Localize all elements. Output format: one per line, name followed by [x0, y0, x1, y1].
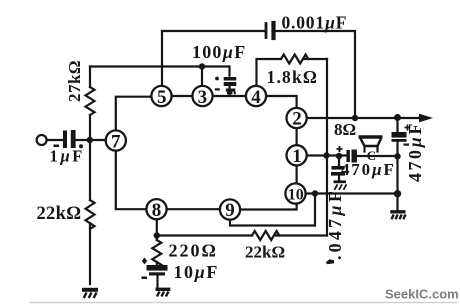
pin 3 [192, 86, 212, 106]
wire pin1 line [306, 154, 346, 156]
node pin1 line 470uF stub [336, 153, 342, 159]
node pin10 right column [394, 190, 401, 197]
wire pin2 output line [306, 117, 429, 119]
svg-text:4: 4 [251, 87, 261, 108]
stray tick mark [326, 259, 335, 264]
resistor 22k bottom line [157, 231, 327, 240]
speaker legs [365, 146, 378, 152]
pin 9 [220, 199, 240, 219]
resistor 22k left [86, 140, 95, 285]
resistor 1.8k loop [257, 55, 328, 87]
ground G1 22k [82, 290, 98, 298]
node right column top [394, 114, 401, 121]
IC loop left side [116, 97, 153, 132]
svg-text:22kΩ: 22kΩ [37, 204, 82, 224]
wire pin8-pin9 [166, 208, 221, 210]
wire pin5 to top line [161, 31, 163, 87]
svg-text:.047µF: .047µF [325, 188, 345, 260]
svg-text:1: 1 [292, 146, 302, 167]
pin 2 [287, 108, 307, 128]
wire 0.001uF top line left [162, 30, 264, 32]
ground G2 10uF [156, 289, 171, 296]
svg-text:470µF: 470µF [341, 160, 396, 179]
wire pin8 down [156, 218, 158, 240]
svg-text:8Ω: 8Ω [334, 120, 356, 139]
wire cap to pin7 [74, 139, 107, 141]
resistor 27k [86, 67, 95, 140]
wire input to cap [47, 139, 63, 141]
minus mark right cap [404, 144, 410, 146]
svg-text:1µF: 1µF [50, 147, 85, 166]
wire pin4 to pin2 [265, 96, 296, 109]
capacitor 470uF right stub [396, 142, 398, 210]
svg-text:1.8kΩ: 1.8kΩ [267, 67, 319, 87]
plus mark series cap [337, 146, 343, 152]
capacitor 10uF plates [142, 265, 168, 279]
speaker 8ohm [359, 137, 383, 146]
svg-text:22kΩ: 22kΩ [245, 243, 285, 262]
IC pin circles [106, 86, 307, 220]
pin 10 [285, 183, 305, 203]
wire 0.001uF top line right [273, 31, 356, 118]
wire pin10 line [306, 192, 398, 194]
wire pin3-pin4 [212, 95, 247, 97]
svg-text:SeekIC.com: SeekIC.com [385, 287, 459, 302]
svg-text:2: 2 [292, 109, 302, 130]
node pin10 line [312, 190, 318, 196]
wire 470uF gnd stub [338, 156, 340, 182]
svg-text:10µF: 10µF [174, 262, 219, 282]
svg-text:7: 7 [111, 131, 121, 152]
capacitor C series plates [347, 150, 357, 163]
input terminal [37, 135, 47, 145]
pin 7 [106, 130, 126, 150]
arrow supply [419, 114, 433, 123]
svg-text:3: 3 [198, 87, 208, 108]
pin 5 [151, 86, 171, 106]
wire pin9 stub loop [230, 194, 315, 226]
wire 10uF to gnd [156, 276, 158, 289]
pin 4 [246, 86, 266, 106]
wire pin9 to pin10 [239, 203, 296, 210]
capacitor 0.001uF plates [265, 24, 268, 38]
ground G3 470uF [334, 182, 347, 190]
svg-text:470µF: 470µF [405, 121, 425, 182]
node 0.001uF to pin2 line [352, 115, 358, 121]
node pin8 column [154, 232, 160, 238]
wire stub to pin3 [201, 67, 203, 88]
capacitor 1uF plates [54, 130, 84, 148]
svg-text:100µF: 100µF [192, 42, 246, 62]
node top line above pin3 [199, 63, 205, 69]
wire pin2-pin1 [296, 127, 298, 146]
svg-text:9: 9 [225, 200, 235, 221]
scan artifact bottom line [30, 302, 457, 304]
node pin1 line 1.8k vertical [323, 152, 329, 158]
ground G4 right [390, 212, 405, 220]
capacitor 470uF right plates [392, 132, 407, 142]
wire 1.8k right vertical [326, 59, 328, 236]
wire pin1-pin10 [296, 165, 298, 185]
svg-text:27kΩ: 27kΩ [65, 60, 84, 102]
resistor 220 [152, 240, 161, 268]
wire right column top [396, 118, 398, 133]
wire pin5-pin3 [171, 95, 194, 97]
plus mark 10uF [142, 258, 147, 265]
pin 1 [287, 145, 307, 165]
node input junction [87, 137, 93, 143]
capacitor 470uF horizontal plates [331, 166, 345, 176]
capacitor 100uF plates [215, 77, 237, 95]
svg-text:5: 5 [157, 87, 167, 108]
plus mark right cap [405, 125, 411, 131]
svg-text:8: 8 [152, 200, 162, 221]
node pin1 right column [394, 153, 400, 159]
wire 27k top line [90, 65, 229, 67]
svg-text:0.001µF: 0.001µF [282, 13, 348, 33]
svg-text:10: 10 [288, 187, 304, 204]
svg-text:220Ω: 220Ω [169, 241, 218, 261]
capacitor 100uF stub [228, 67, 230, 97]
pin 8 [146, 199, 166, 219]
